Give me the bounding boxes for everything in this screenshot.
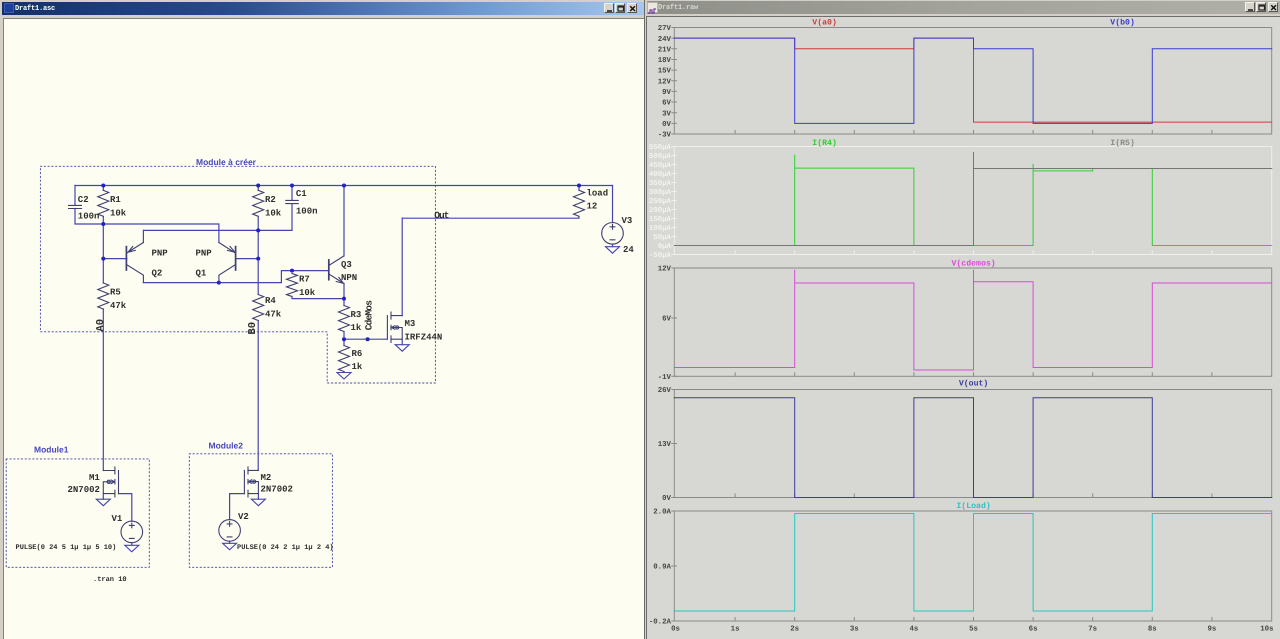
svg-text:10s: 10s xyxy=(1260,626,1273,634)
svg-text:0µA: 0µA xyxy=(658,243,672,251)
svg-text:Module2: Module2 xyxy=(209,441,244,451)
svg-text:CdeMos: CdeMos xyxy=(364,300,375,331)
pane 5 axis box xyxy=(672,511,1272,621)
resistor R5 xyxy=(98,283,109,309)
svg-text:10k: 10k xyxy=(265,208,282,218)
junction node top rail / R1 xyxy=(101,184,105,188)
svg-text:R3: R3 xyxy=(351,310,362,320)
trace V(a0) red xyxy=(674,38,1271,122)
svg-text:0s: 0s xyxy=(671,626,680,634)
svg-text:400µA: 400µA xyxy=(649,171,672,179)
svg-text:15V: 15V xyxy=(658,68,672,76)
svg-text:V3: V3 xyxy=(622,216,633,226)
junction node A (R1 bottom) xyxy=(101,222,105,226)
svg-text:PULSE(0 24 5 1µ 1µ 5 10): PULSE(0 24 5 1µ 1µ 5 10) xyxy=(16,543,117,552)
svg-text:V2: V2 xyxy=(238,512,249,522)
wire C2 bottom lead xyxy=(75,209,103,225)
svg-text:0V: 0V xyxy=(662,121,671,129)
wire R2 top lead xyxy=(257,186,259,191)
trace V(cdemos) magenta xyxy=(674,270,1271,370)
transistor Q1 (PNP) xyxy=(235,247,237,270)
junction node top rail / C1 xyxy=(290,184,294,188)
right window title bar xyxy=(647,1,1280,14)
left window right shadow edge xyxy=(644,0,645,639)
trace I(R4) green xyxy=(674,155,1271,246)
svg-text:IRFZ44N: IRFZ44N xyxy=(405,333,443,343)
svg-text:R4: R4 xyxy=(265,296,276,306)
svg-text:6V: 6V xyxy=(662,316,671,324)
svg-text:100n: 100n xyxy=(78,212,100,222)
svg-text:7s: 7s xyxy=(1088,626,1097,634)
svg-text:26V: 26V xyxy=(658,387,672,395)
svg-text:-0.2A: -0.2A xyxy=(649,619,672,627)
svg-text:550µA: 550µA xyxy=(649,144,672,152)
svg-text:-1V: -1V xyxy=(658,374,672,382)
svg-text:200µA: 200µA xyxy=(649,207,672,215)
svg-text:47k: 47k xyxy=(110,301,127,311)
trace I(Load) cyan xyxy=(674,514,1271,612)
wire V1 bottom lead xyxy=(131,543,133,546)
svg-text:18V: 18V xyxy=(658,57,672,65)
svg-text:3s: 3s xyxy=(850,626,859,634)
pane 2 axis box xyxy=(672,147,1272,255)
wire C1 bottom lead xyxy=(291,204,293,231)
svg-text:100n: 100n xyxy=(296,207,318,217)
svg-text:9s: 9s xyxy=(1207,626,1216,634)
svg-text:.tran 10: .tran 10 xyxy=(93,576,127,584)
svg-text:12V: 12V xyxy=(658,78,672,86)
wire node A horizontal (R1 bottom to Q1 emitter) xyxy=(103,216,219,242)
wire R6 bottom lead xyxy=(343,372,345,373)
resistor R2 xyxy=(253,190,264,216)
trace I(R5) grey xyxy=(674,152,1271,246)
ground under V3 xyxy=(606,247,620,254)
left window icon xyxy=(4,3,14,13)
junction R3 bottom / R6 / CdeMos xyxy=(342,337,346,341)
svg-text:B0: B0 xyxy=(247,322,259,335)
resistor R4 xyxy=(253,295,264,321)
svg-text:-50µA: -50µA xyxy=(649,252,672,260)
wire C2 top lead xyxy=(74,186,76,206)
left window title text xyxy=(15,5,55,13)
svg-text:V1: V1 xyxy=(112,514,123,524)
svg-text:10k: 10k xyxy=(299,288,316,298)
svg-text:Q3: Q3 xyxy=(341,260,352,270)
svg-text:A0: A0 xyxy=(95,319,107,332)
wire R7 bottom to Q3 emitter xyxy=(292,297,344,299)
svg-text:Module à créer: Module à créer xyxy=(196,157,257,167)
svg-text:50µA: 50µA xyxy=(653,234,671,242)
svg-text:250µA: 250µA xyxy=(649,198,672,206)
svg-text:V(out): V(out) xyxy=(959,380,988,389)
svg-text:47k: 47k xyxy=(265,310,282,320)
svg-text:R2: R2 xyxy=(265,195,276,205)
svg-text:12: 12 xyxy=(587,202,598,212)
svg-text:24: 24 xyxy=(623,245,634,255)
svg-text:R5: R5 xyxy=(110,288,121,298)
junction Q3 emitter / R7 / R3 xyxy=(342,297,346,301)
pane 1 axis box xyxy=(672,28,1272,135)
wire R2 bottom lead xyxy=(257,216,259,230)
svg-text:NPN: NPN xyxy=(341,273,357,283)
ground under V2 xyxy=(223,543,237,550)
svg-text:8s: 8s xyxy=(1148,626,1157,634)
left window close button xyxy=(627,3,637,13)
transistor Q2 (PNP) xyxy=(125,247,127,270)
svg-text:300µA: 300µA xyxy=(649,189,672,197)
left window title bar xyxy=(2,2,644,15)
pane 5 y-axis labels xyxy=(649,509,672,627)
svg-text:V(cdemos): V(cdemos) xyxy=(951,259,995,268)
svg-text:450µA: 450µA xyxy=(649,162,672,170)
svg-text:M3: M3 xyxy=(405,319,416,329)
wire Q3 collector to top rail xyxy=(343,186,345,256)
svg-text:10k: 10k xyxy=(110,208,127,218)
left window frame xyxy=(0,0,646,639)
svg-text:27V: 27V xyxy=(658,25,672,33)
wire M1 gate to V1 xyxy=(119,494,132,521)
svg-text:R7: R7 xyxy=(299,275,310,285)
svg-text:1k: 1k xyxy=(352,362,363,372)
wire Q2 emitter vertical xyxy=(142,230,144,242)
svg-text:R1: R1 xyxy=(110,195,121,205)
svg-text:R6: R6 xyxy=(352,349,363,359)
svg-text:Module1: Module1 xyxy=(34,445,69,455)
capacitor C2 xyxy=(69,205,82,208)
svg-text:-3V: -3V xyxy=(658,132,672,140)
svg-text:I(Load): I(Load) xyxy=(956,502,990,511)
svg-text:V(a0): V(a0) xyxy=(812,19,837,28)
svg-text:9V: 9V xyxy=(662,89,671,97)
left window maximize button xyxy=(615,3,625,13)
wire Q3 emitter to R3 xyxy=(343,284,345,306)
svg-text:Q2: Q2 xyxy=(152,269,163,279)
transistor M3 (NMOS IRFZ44N) xyxy=(387,312,402,342)
wire V3 bottom lead xyxy=(612,244,614,247)
right window title text xyxy=(658,4,698,12)
right window maximize button xyxy=(1256,2,1266,12)
svg-text:C2: C2 xyxy=(78,195,89,205)
svg-text:6V: 6V xyxy=(662,100,671,108)
wire C1 top lead xyxy=(291,186,293,201)
left window client area (schematic canvas) xyxy=(3,18,644,639)
pane 3 y-axis labels xyxy=(658,266,672,382)
dashed module box "Module à créer" xyxy=(40,166,435,383)
svg-text:6s: 6s xyxy=(1029,626,1038,634)
pane 4 y-axis labels xyxy=(658,387,672,503)
junction CdeMos label anchor xyxy=(366,337,370,341)
trace V(out) dark blue xyxy=(674,398,1271,498)
dashed module box "Module2" xyxy=(189,454,332,568)
junction node B / Q1 base xyxy=(256,257,260,261)
svg-text:M1: M1 xyxy=(89,473,100,483)
dashed module box "Module1" xyxy=(6,459,149,567)
wire V2 bottom lead xyxy=(229,541,231,543)
wire node B rail (Q2 emitter to C1 bottom) xyxy=(144,229,293,231)
wire load top lead xyxy=(578,186,580,191)
wire M3 source to ground xyxy=(401,339,403,345)
svg-text:100µA: 100µA xyxy=(649,225,672,233)
pane 2 y-axis labels xyxy=(649,144,672,260)
wire top supply rail xyxy=(75,185,613,187)
right window client area (waveform viewer) xyxy=(646,16,1280,639)
svg-text:load: load xyxy=(587,189,609,199)
wire Q2 base xyxy=(103,258,127,260)
wire M2 source to ground xyxy=(257,494,259,500)
transistor M1 (NMOS 2N7002, mirrored) xyxy=(103,467,118,497)
right window frame xyxy=(646,0,1280,639)
left window minimize button xyxy=(604,3,614,13)
svg-text:I(R5): I(R5) xyxy=(1110,139,1135,148)
right window minimize button xyxy=(1245,2,1255,12)
wire node CdeMos (R3 bottom to M3 gate) xyxy=(344,332,387,346)
wire collector rail Q2/Q1 to R7 and Q3 base xyxy=(143,271,328,283)
ground under V1 xyxy=(125,545,139,552)
svg-text:PNP: PNP xyxy=(196,249,213,259)
wire V3 top lead xyxy=(612,186,614,223)
wire A0 column (R5 bottom to M1 drain) xyxy=(102,309,104,471)
trace V(b0) blue xyxy=(674,38,1271,123)
capacitor C1 xyxy=(286,200,298,203)
wire M1 source to ground xyxy=(102,494,104,500)
svg-text:I(R4): I(R4) xyxy=(812,139,837,148)
resistor load xyxy=(574,190,585,216)
junction node A / Q2 base xyxy=(101,257,105,261)
ground under M3 source xyxy=(395,345,409,352)
pane 3 axis box xyxy=(672,268,1272,376)
resistor R7 xyxy=(287,274,298,297)
voltage source V3 xyxy=(602,223,624,245)
right window close button xyxy=(1268,2,1278,12)
svg-text:2.0A: 2.0A xyxy=(653,509,671,517)
junction node B (R2 bottom) xyxy=(256,228,260,232)
time axis labels xyxy=(671,626,1273,634)
svg-text:500µA: 500µA xyxy=(649,153,672,161)
svg-text:150µA: 150µA xyxy=(649,216,672,224)
svg-text:24V: 24V xyxy=(658,36,672,44)
right window icon (waveform doc) xyxy=(647,2,658,13)
svg-text:2N7002: 2N7002 xyxy=(261,485,293,495)
svg-text:Out: Out xyxy=(434,210,448,221)
junction R7 top / Q3 base xyxy=(290,269,294,273)
svg-text:0.9A: 0.9A xyxy=(653,564,671,572)
wire M2 gate to V2 xyxy=(230,494,245,520)
svg-text:5s: 5s xyxy=(969,626,978,634)
wire R1 top lead xyxy=(102,186,104,191)
svg-text:2s: 2s xyxy=(790,626,799,634)
svg-text:PNP: PNP xyxy=(152,249,169,259)
svg-text:0V: 0V xyxy=(662,495,671,503)
svg-text:C1: C1 xyxy=(296,189,307,199)
junction node top rail / load xyxy=(577,184,581,188)
transistor M2 (NMOS 2N7002) xyxy=(244,467,258,497)
ground under M1 source xyxy=(96,499,110,506)
junction Q1 collector / rail xyxy=(217,281,221,285)
wire M3 drain to Out xyxy=(401,218,403,315)
svg-text:V(b0): V(b0) xyxy=(1110,19,1135,28)
svg-text:13V: 13V xyxy=(658,441,672,449)
junction node top rail / Q3 collector xyxy=(342,184,346,188)
junction node top rail / R2 xyxy=(256,184,260,188)
ground under R6 xyxy=(337,373,351,380)
pane 1 y-axis labels xyxy=(658,25,672,140)
pane 4 axis box xyxy=(672,390,1272,498)
ground under M2 source xyxy=(251,499,265,506)
resistor R3 xyxy=(339,306,350,332)
voltage source V2 xyxy=(219,520,241,542)
svg-text:1s: 1s xyxy=(731,626,740,634)
svg-text:3V: 3V xyxy=(662,110,671,118)
wire node A column down to R5 xyxy=(102,224,104,283)
svg-text:350µA: 350µA xyxy=(649,180,672,188)
svg-text:12V: 12V xyxy=(658,266,672,274)
svg-text:PULSE(0 24 2 1µ 1µ 2 4): PULSE(0 24 2 1µ 1µ 2 4) xyxy=(237,543,334,552)
svg-text:Q1: Q1 xyxy=(196,269,207,279)
voltage source V1 xyxy=(121,521,143,543)
svg-text:M2: M2 xyxy=(261,473,272,483)
wire node B column down to R4 xyxy=(257,230,259,294)
svg-text:21V: 21V xyxy=(658,46,672,54)
wire B0 column (R4 bottom to M2 drain) xyxy=(257,321,259,471)
wire Q1 base xyxy=(236,258,259,260)
resistor R1 xyxy=(98,190,109,216)
svg-text:1k: 1k xyxy=(351,323,362,333)
svg-text:4s: 4s xyxy=(909,626,918,634)
wire Out net xyxy=(402,216,579,218)
transistor Q3 (NPN) xyxy=(328,260,330,280)
resistor R6 xyxy=(339,346,350,372)
svg-text:2N7002: 2N7002 xyxy=(68,485,100,495)
